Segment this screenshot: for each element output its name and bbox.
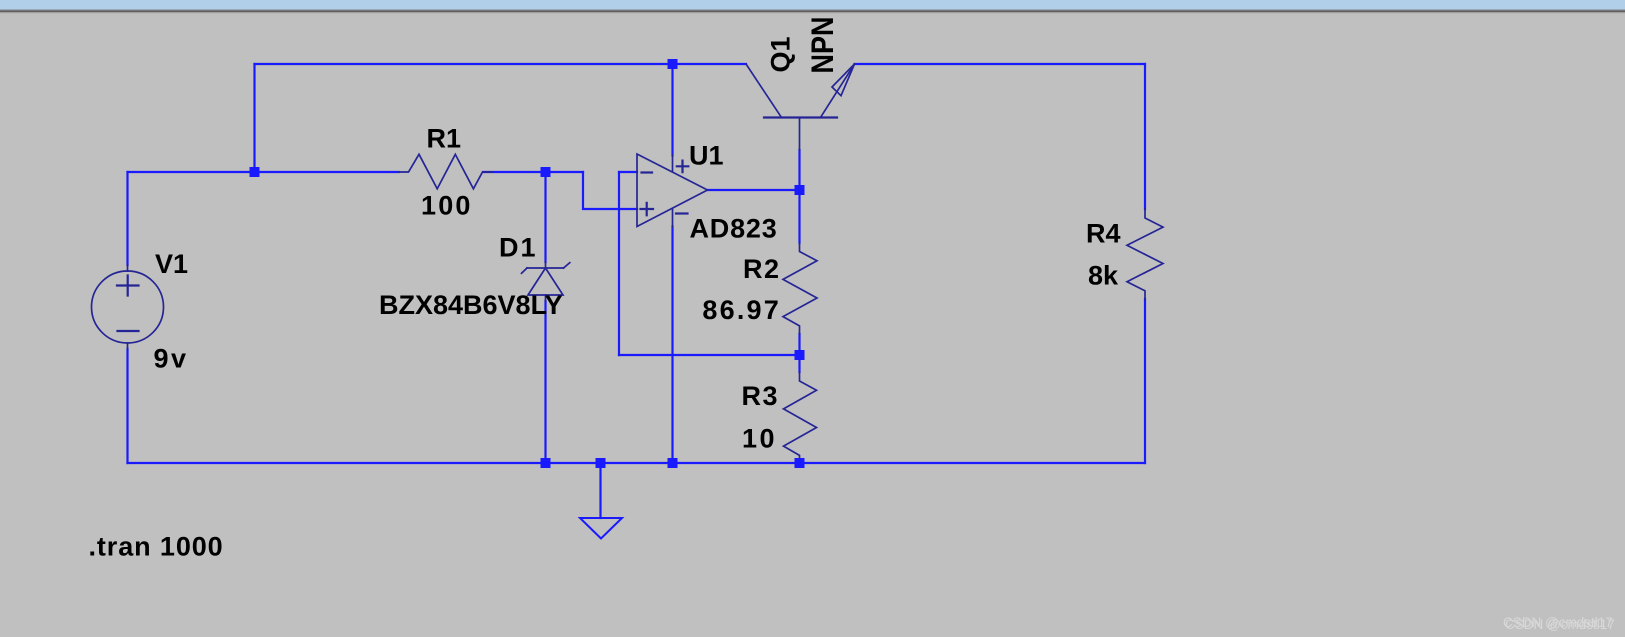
svg-text:10: 10 [742, 424, 777, 454]
voltage source V1 [92, 271, 164, 343]
wire R2 top lead [798, 190, 800, 243]
wire bottom ground rail [128, 462, 1146, 464]
wire down to V1 top [126, 172, 128, 265]
wire vertical from top rail down to R1 input node [253, 64, 255, 172]
resistor R1 [399, 154, 492, 189]
wire R3 bottom lead [798, 461, 800, 463]
wire top rail left (node VCC) [255, 63, 747, 65]
op-amp U1 [637, 154, 708, 227]
resistor R3 [784, 372, 817, 461]
wire V1 bottom to ground rail [126, 349, 128, 463]
node junction ground stub [596, 458, 606, 468]
svg-text:.tran 1000: .tran 1000 [89, 532, 224, 562]
wire D1 top lead [544, 172, 546, 262]
wire op-amp minus input [619, 171, 637, 173]
wire ground stub [599, 463, 601, 518]
wire R4 top lead [1144, 64, 1146, 209]
svg-text:U1: U1 [689, 141, 724, 171]
node junction V1/R1 [250, 167, 260, 177]
svg-text:BZX84B6V8LY: BZX84B6V8LY [379, 290, 563, 320]
wire top rail right to R4 [855, 63, 1146, 65]
svg-text:R4: R4 [1086, 219, 1121, 249]
wire R4 bottom lead [1144, 299, 1146, 463]
svg-text:8k: 8k [1088, 261, 1119, 291]
wire supply rail upper (V+) [671, 64, 673, 156]
ground [580, 518, 622, 539]
wire Q1 base down to output node [798, 150, 800, 190]
node junction supply / ground rail [668, 458, 678, 468]
wire feedback horizontal to divider node [619, 354, 800, 356]
wire feedback vertical [618, 172, 620, 355]
svg-text:NPN: NPN [805, 17, 840, 74]
svg-text:86.97: 86.97 [702, 295, 781, 325]
wire R1 right lead to node [483, 171, 583, 173]
svg-text:R1: R1 [427, 124, 462, 154]
wire R2 bottom lead [798, 334, 800, 355]
svg-text:9v: 9v [154, 344, 189, 374]
resistor R2 [783, 243, 817, 334]
wire V1 plus to R1 node [128, 171, 255, 173]
node junction top rail / supply [668, 59, 678, 69]
node junction D1 / ground rail [541, 458, 551, 468]
node junction R3 / ground rail [795, 458, 805, 468]
transistor Q1 [764, 116, 837, 118]
window top bar [0, 0, 1625, 9]
svg-text:V1: V1 [155, 249, 188, 279]
svg-text:AD823: AD823 [690, 214, 778, 244]
zener diode D1 [545, 262, 547, 268]
svg-text:100: 100 [421, 191, 473, 221]
wire R3 top lead [798, 355, 800, 372]
svg-text:R2: R2 [743, 254, 781, 284]
node junction op-amp out / Q1 base / R2 [795, 185, 805, 195]
svg-text:R3: R3 [741, 381, 779, 411]
wire D1 bottom lead [544, 301, 546, 463]
wire supply rail lower (V-) [671, 227, 673, 464]
wire op-amp output [708, 189, 800, 191]
node junction R2/R3 feedback [795, 350, 805, 360]
svg-text:D1: D1 [499, 233, 538, 263]
svg-text:CSDN @cmdstl17: CSDN @cmdstl17 [1503, 615, 1613, 630]
svg-text:Q1: Q1 [766, 36, 796, 72]
resistor R4 [1127, 209, 1163, 299]
wire R1 left lead [255, 171, 400, 173]
node junction R1/D1 [541, 167, 551, 177]
wire step down to op-amp plus input [583, 172, 637, 209]
